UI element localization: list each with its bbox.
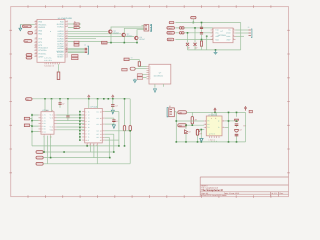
wire U6 pin feeds xyxy=(176,121,204,138)
svg-text:2: 2 xyxy=(212,31,213,34)
wire U4 left rail xyxy=(32,114,39,146)
wire U4-U5 links xyxy=(57,115,85,130)
svg-text:C?: C? xyxy=(116,105,118,108)
connector P2 jumper xyxy=(130,67,146,70)
svg-text:10k: 10k xyxy=(75,26,78,29)
U3 left pin stubs xyxy=(147,65,151,80)
capacitor C12 electrolytic xyxy=(235,119,239,125)
wire IC bottom drops xyxy=(44,136,97,164)
svg-text:14: 14 xyxy=(35,19,37,22)
capacitor C6 xyxy=(59,99,65,108)
svg-text:Reset: Reset xyxy=(23,25,28,28)
label XT left xyxy=(28,32,33,35)
U4 pin names teal xyxy=(44,114,46,134)
op IC U5 xyxy=(85,106,103,143)
ground arrow C8 xyxy=(111,105,117,114)
op IC U6 555 timer xyxy=(204,112,225,141)
U1 bottom pin numbers xyxy=(44,65,54,68)
ground U3 bottom xyxy=(154,89,157,92)
svg-text:26: 26 xyxy=(35,45,37,48)
power flag VCC2 xyxy=(88,95,90,99)
transistor Q3 xyxy=(135,36,145,41)
capacitor C8 right of U5 xyxy=(111,99,114,110)
power flag VCC3 xyxy=(112,95,114,99)
svg-text:MI/PB4: MI/PB4 xyxy=(57,47,63,50)
op IC U1 microcontroller xyxy=(37,17,72,62)
wire IN4 net xyxy=(175,39,213,41)
svg-text:3: 3 xyxy=(212,34,213,37)
op IC U3 xyxy=(149,64,171,84)
resistor R4 xyxy=(138,59,146,66)
svg-text:PC4/SDA: PC4/SDA xyxy=(38,49,47,52)
svg-text:Aref: Aref xyxy=(25,40,29,43)
hier label IN4 xyxy=(167,38,174,41)
junction dots U4 left xyxy=(31,114,33,132)
svg-text:RESET: RESET xyxy=(57,56,64,59)
U4 top pin numbers xyxy=(46,109,54,112)
svg-text:MCP2551: MCP2551 xyxy=(218,34,226,37)
label stack left of U4 xyxy=(24,117,32,126)
svg-text:KiCad E.D.A. kicad 4.0.2-stab: KiCad E.D.A. kicad 4.0.2-stable xyxy=(201,194,226,197)
op IC U2 xyxy=(211,28,236,43)
label GND1 xyxy=(102,41,107,44)
junction dots U5 left xyxy=(79,111,81,141)
U1 pin numbers (red) xyxy=(35,19,37,57)
transistor Q1 xyxy=(109,29,119,34)
label NET4 xyxy=(36,156,43,159)
svg-text:PB0: PB0 xyxy=(38,21,42,24)
hier label IN2 xyxy=(167,27,175,30)
svg-text:TX/PD1: TX/PD1 xyxy=(57,25,64,28)
power flag V555a xyxy=(214,108,216,112)
wire U4 top feeds xyxy=(45,99,52,112)
ground top-right xyxy=(214,50,218,55)
border frame xyxy=(11,7,289,197)
label MOSI stack xyxy=(74,41,79,46)
label stack below ISP xyxy=(72,55,78,60)
svg-text:8: 8 xyxy=(233,28,234,31)
svg-text:4: 4 xyxy=(67,24,68,27)
wire U2 right wires xyxy=(236,30,249,36)
wire top rail BR xyxy=(187,112,246,141)
U5 bottom pin stubs xyxy=(86,143,97,146)
junction top label xyxy=(193,22,195,24)
connector J2 ISP header xyxy=(84,44,89,54)
svg-text:PC1: PC1 xyxy=(38,41,42,44)
wire emitter rail xyxy=(105,33,138,42)
svg-text:PB2/SS: PB2/SS xyxy=(38,26,45,29)
svg-text:2: 2 xyxy=(205,120,206,123)
svg-text:U?: U? xyxy=(221,30,223,33)
svg-text:PC3/ADC3: PC3/ADC3 xyxy=(38,46,47,49)
trimmer RV1 xyxy=(196,129,202,142)
U1 bottom pin stubs xyxy=(45,62,59,64)
U3 bottom pin stubs xyxy=(155,84,164,88)
svg-text:P?: P? xyxy=(169,105,171,108)
label CONN1 xyxy=(178,111,187,115)
svg-text:IN/PD3: IN/PD3 xyxy=(57,33,63,36)
wire top net xyxy=(175,23,240,50)
wire U6 right xyxy=(212,112,237,142)
label NET5 xyxy=(36,162,43,165)
svg-text:CanH: CanH xyxy=(168,27,173,30)
svg-text:6: 6 xyxy=(67,31,68,34)
svg-text:U?: U? xyxy=(159,71,161,74)
svg-text:1: 1 xyxy=(67,55,68,58)
ground U3 left xyxy=(133,79,136,83)
svg-text:15: 15 xyxy=(35,22,37,25)
label VCC top-right xyxy=(191,16,196,22)
U4 left pin stubs xyxy=(39,115,42,132)
ground arrow C9 xyxy=(112,120,118,129)
svg-text:C?: C? xyxy=(240,129,242,132)
U1 pin names (inside, teal) xyxy=(38,21,51,59)
label SCL left xyxy=(26,57,32,60)
diode D1 xyxy=(186,33,190,50)
junction dots BR right xyxy=(228,112,238,143)
wire bottom net top-right xyxy=(188,49,216,51)
svg-text:7: 7 xyxy=(233,31,234,34)
capacitor C13 electrolytic xyxy=(235,124,246,135)
resistor R10 vertical xyxy=(201,40,203,50)
label NET2 xyxy=(122,68,127,71)
junction dots emitter rail xyxy=(110,42,138,44)
svg-text:BC547: BC547 xyxy=(127,35,133,38)
svg-text:28: 28 xyxy=(35,51,37,54)
diode D2 xyxy=(194,28,198,50)
hier label IN3 xyxy=(167,32,175,35)
U1 bottom pin names inside xyxy=(44,57,52,62)
svg-text:CanL: CanL xyxy=(168,32,172,35)
svg-text:21: 21 xyxy=(35,54,37,57)
svg-text:C?: C? xyxy=(62,103,64,106)
transistor Q2 xyxy=(122,33,132,38)
svg-text:23: 23 xyxy=(35,37,37,40)
svg-text:4: 4 xyxy=(212,37,213,40)
svg-text:J?: J? xyxy=(248,26,250,29)
U4 pin numbers inside xyxy=(42,114,43,134)
label AREF left xyxy=(24,40,32,43)
capacitor C9 right of U5 xyxy=(105,118,116,124)
wire J5 drop xyxy=(174,112,176,142)
label Y1 top xyxy=(124,57,139,61)
U5 right pin stubs xyxy=(102,112,105,141)
svg-text:27: 27 xyxy=(35,48,37,51)
svg-text:Rev:: Rev: xyxy=(280,192,284,195)
svg-text:24: 24 xyxy=(35,40,37,43)
wire U5 right links xyxy=(105,112,130,141)
U5 pin names teal xyxy=(88,110,90,142)
wire collector wires to J3 xyxy=(111,26,144,37)
wire U5 left bus xyxy=(79,112,81,141)
wire bottom nets xyxy=(32,112,130,164)
inductor L1 xyxy=(175,27,213,29)
junction U2 left xyxy=(206,36,208,38)
connector J4 teal xyxy=(248,26,252,37)
svg-text:T1/PD5: T1/PD5 xyxy=(57,37,63,40)
title block xyxy=(200,177,288,197)
junction dots BR left xyxy=(176,112,216,143)
svg-text:PB1/OC1: PB1/OC1 xyxy=(38,23,46,26)
ground 555 xyxy=(200,139,203,142)
connector J3 xyxy=(144,24,152,31)
svg-text:6: 6 xyxy=(205,126,206,129)
junction dots bottom nets xyxy=(43,130,131,158)
svg-text:18: 18 xyxy=(35,31,37,34)
svg-text:7: 7 xyxy=(223,126,224,129)
capacitor C11 xyxy=(200,31,203,39)
U5 left pin stubs xyxy=(82,112,85,141)
svg-text:A0/PD6: A0/PD6 xyxy=(57,40,64,43)
svg-text:5: 5 xyxy=(205,123,206,126)
U5 pin numbers inside xyxy=(86,110,88,142)
U4 right pin stubs xyxy=(54,115,57,130)
wire U2 left vertical xyxy=(206,36,208,50)
svg-text:MIDI/RS232: MIDI/RS232 xyxy=(154,74,163,77)
label SDA left xyxy=(26,54,32,57)
svg-text:Gnd: Gnd xyxy=(168,38,171,41)
resistor R6 xyxy=(129,99,131,164)
svg-text:SIG: SIG xyxy=(179,124,183,127)
wire reset net left xyxy=(20,24,34,26)
svg-text:PB3: PB3 xyxy=(38,30,42,33)
svg-text:PC0: PC0 xyxy=(38,38,42,41)
svg-text:R?: R? xyxy=(243,124,245,127)
label RESET left xyxy=(23,25,32,28)
resistor R1 xyxy=(68,20,81,25)
label 5V rail xyxy=(26,98,32,101)
resistor R2 xyxy=(68,26,81,29)
junction R5 top xyxy=(124,98,126,100)
connector J5 xyxy=(167,105,174,117)
svg-text:Id: 1/1: Id: 1/1 xyxy=(272,192,277,195)
svg-text:BC547: BC547 xyxy=(114,31,120,34)
U1 right pin stubs xyxy=(65,22,68,57)
capacitor C7 between U4 U5 xyxy=(66,99,69,121)
label NET3 xyxy=(36,151,43,154)
ground left of U1 xyxy=(19,25,22,31)
resistor R7 xyxy=(191,112,197,125)
svg-text:8: 8 xyxy=(215,117,216,120)
svg-text:6: 6 xyxy=(233,34,234,37)
svg-text:PB4: PB4 xyxy=(38,33,42,36)
svg-text:7 20 8 22 3 5: 7 20 8 22 3 5 xyxy=(44,65,54,68)
svg-text:J2: J2 xyxy=(84,44,86,47)
svg-text:C?: C? xyxy=(116,120,118,123)
capacitor C10 xyxy=(200,23,203,32)
wire U5 top feeds xyxy=(89,99,98,109)
svg-text:u: u xyxy=(50,30,51,33)
svg-text:3: 3 xyxy=(223,120,224,123)
U1 left pin stubs xyxy=(34,22,37,57)
svg-text:BC547: BC547 xyxy=(140,38,146,41)
frame tick marks xyxy=(10,5,290,197)
inductor L2 xyxy=(175,32,213,34)
svg-text:17: 17 xyxy=(35,29,37,32)
wire bottom rail BR xyxy=(176,141,245,143)
wire PD wires to transistors xyxy=(68,31,134,41)
op IC U4 xyxy=(41,109,54,134)
svg-text:PC5/SCL: PC5/SCL xyxy=(38,53,46,56)
svg-text:1: 1 xyxy=(212,28,213,31)
svg-text:16: 16 xyxy=(35,25,37,28)
resistor R3 below U1 xyxy=(57,64,60,79)
power flag V555b xyxy=(244,107,252,113)
label CONN2 xyxy=(178,124,187,128)
svg-text:12: 12 xyxy=(66,36,68,39)
U4 bottom pin stubs xyxy=(43,134,51,138)
diode D3 xyxy=(184,130,190,142)
wire ISP wires xyxy=(68,48,85,52)
svg-text:5: 5 xyxy=(233,37,234,40)
svg-text:13: 13 xyxy=(66,39,68,42)
wire VCC rail xyxy=(32,98,130,100)
svg-text:The Saxophone IC: The Saxophone IC xyxy=(201,189,223,192)
hier label IN1 xyxy=(169,21,174,23)
junction dots on VCC rail xyxy=(44,98,113,100)
svg-text:4: 4 xyxy=(211,117,212,120)
resistor R5 xyxy=(123,99,125,146)
svg-text:Gnd: Gnd xyxy=(102,42,105,45)
label GND pair xyxy=(137,74,146,80)
junction dots top-right xyxy=(187,22,217,51)
